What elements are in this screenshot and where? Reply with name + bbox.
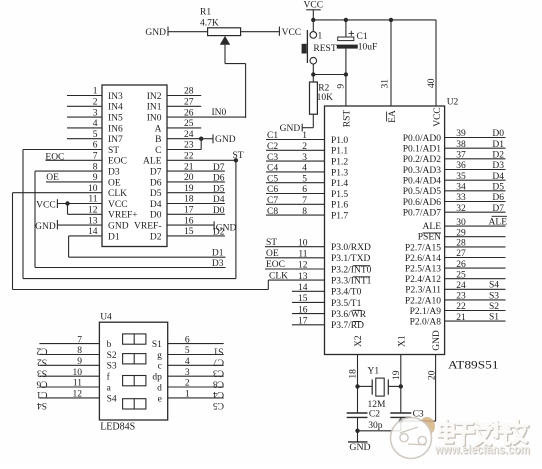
display segment box 3 <box>123 376 146 386</box>
wire X2 to crystal <box>357 355 359 387</box>
svg-text:C2: C2 <box>267 142 278 152</box>
MCU pin name P3.6/WR <box>331 310 367 320</box>
svg-text:D7: D7 <box>492 204 504 214</box>
svg-text:7: 7 <box>302 196 307 206</box>
svg-text:15: 15 <box>298 294 308 304</box>
wire MCU pin 8 net C8 <box>266 207 325 217</box>
svg-text:P3.4/T0: P3.4/T0 <box>331 288 362 298</box>
svg-text:20: 20 <box>184 173 194 183</box>
svg-text:X1: X1 <box>397 335 407 347</box>
power VCC (right of R1) <box>279 27 301 38</box>
wire ADC pin 3 <box>67 108 102 118</box>
wire MCU pin 11 <box>265 249 325 260</box>
svg-text:IN2: IN2 <box>147 92 162 102</box>
ground GND (crystal) <box>348 431 371 453</box>
wire ADC pin 11 <box>57 195 102 205</box>
svg-text:GND: GND <box>349 442 370 453</box>
svg-text:C1: C1 <box>267 131 278 141</box>
wire ADC pin 4 <box>67 119 102 129</box>
svg-text:C4: C4 <box>267 164 278 174</box>
svg-text:ALE: ALE <box>143 157 162 167</box>
wire MCU pin 36 net D3 <box>445 161 506 171</box>
wire ADC pin 5 <box>67 130 102 140</box>
svg-text:S1: S1 <box>489 313 499 323</box>
resistor R2 10K <box>310 75 334 115</box>
svg-text:C8: C8 <box>267 207 278 217</box>
svg-text:VCC: VCC <box>304 1 324 11</box>
svg-text:VCC: VCC <box>282 28 302 38</box>
wire ADC pin 12 <box>68 206 103 216</box>
wire ADC pin 2 <box>67 98 102 108</box>
svg-text:www.elecfans.com: www.elecfans.com <box>434 442 530 457</box>
svg-text:D2: D2 <box>213 228 225 238</box>
wire MCU pin 21 <box>445 313 506 323</box>
capacitor C1 10uF (electrolytic) <box>337 20 378 75</box>
svg-text:6: 6 <box>302 185 307 195</box>
svg-text:D3: D3 <box>212 259 224 269</box>
svg-text:12: 12 <box>73 390 83 400</box>
svg-text:C6: C6 <box>267 185 278 195</box>
svg-text:8: 8 <box>302 207 307 217</box>
svg-text:IN5: IN5 <box>108 114 123 124</box>
svg-text:D2: D2 <box>150 232 162 242</box>
wire C3 to C2 gnd <box>358 430 401 432</box>
svg-text:32: 32 <box>456 204 466 214</box>
wire GND pin 20 <box>401 355 436 422</box>
svg-text:IN1: IN1 <box>147 103 162 113</box>
svg-text:35: 35 <box>456 172 466 182</box>
svg-text:16: 16 <box>184 216 194 226</box>
MCU pin name P3.7/RD <box>331 321 364 331</box>
svg-text:12M: 12M <box>368 400 387 410</box>
svg-text:c: c <box>158 362 162 372</box>
ground GND (below R2) <box>280 124 303 135</box>
svg-text:P0.6/AD6: P0.6/AD6 <box>403 198 442 208</box>
node junction B/C GND <box>199 137 203 141</box>
svg-text:P3.0/RXD: P3.0/RXD <box>331 243 371 253</box>
svg-text:10uF: 10uF <box>358 43 378 53</box>
svg-text:2: 2 <box>302 142 307 152</box>
svg-text:17: 17 <box>298 317 308 327</box>
svg-text:C5: C5 <box>213 400 224 410</box>
wire D3 loop <box>35 171 226 267</box>
svg-text:9: 9 <box>77 357 82 367</box>
svg-text:25: 25 <box>184 119 194 129</box>
wire U4 pin 11 <box>36 379 99 399</box>
svg-text:24: 24 <box>184 130 194 140</box>
svg-text:28: 28 <box>456 239 466 249</box>
wire ADC pin 1 <box>67 87 102 97</box>
svg-text:7: 7 <box>77 335 82 345</box>
svg-text:1: 1 <box>318 31 323 41</box>
wire U4 pin 8 <box>37 346 100 366</box>
svg-text:D4: D4 <box>492 172 504 182</box>
svg-text:4: 4 <box>185 357 190 367</box>
svg-text:P3.6/WR: P3.6/WR <box>331 310 367 320</box>
svg-text:P2.1/A9: P2.1/A9 <box>410 307 442 317</box>
wire CLK loop <box>13 193 269 290</box>
wire ADC pin 17 <box>167 206 225 216</box>
svg-text:C7: C7 <box>267 196 278 206</box>
wire to GND bar <box>201 138 213 140</box>
svg-text:10: 10 <box>88 184 98 194</box>
svg-text:S4: S4 <box>489 281 499 291</box>
wire D1 loop <box>69 236 226 257</box>
wire U4 pin 12 <box>37 390 100 410</box>
svg-text:IN7: IN7 <box>108 135 123 145</box>
svg-text:S4: S4 <box>107 394 117 404</box>
svg-text:U4: U4 <box>100 312 112 322</box>
svg-text:P2.5/A13: P2.5/A13 <box>405 265 441 275</box>
svg-text:30: 30 <box>456 218 466 228</box>
svg-text:4: 4 <box>93 119 98 129</box>
wire MCU pin 32 net D7 <box>445 204 506 214</box>
svg-text:D6: D6 <box>492 193 504 203</box>
svg-text:D7: D7 <box>150 168 162 178</box>
wire MCU pin 30 net ALE <box>445 216 508 228</box>
svg-text:27: 27 <box>184 98 194 108</box>
wire MCU pin 29 <box>445 228 506 238</box>
wire U4 pin 1 <box>168 390 224 410</box>
svg-text:GND: GND <box>108 222 129 232</box>
svg-text:P1.6: P1.6 <box>331 201 348 211</box>
svg-text:ST: ST <box>108 146 119 156</box>
display segment box 1 <box>123 334 146 344</box>
MCU pin name P3.3/INT1 <box>331 277 372 287</box>
svg-text:P2.7/A15: P2.7/A15 <box>405 243 441 253</box>
display segment box 2 <box>123 354 146 364</box>
MCU pin name PSEN (overline) <box>418 233 441 243</box>
wire MCU pin 23 <box>445 291 506 301</box>
svg-text:P2.6/A14: P2.6/A14 <box>405 254 441 264</box>
svg-text:e: e <box>158 394 162 404</box>
node junction ALE/ST <box>234 158 238 162</box>
wire MCU pin 37 net D2 <box>445 151 506 161</box>
wire ADC pin 22 <box>167 152 236 162</box>
svg-text:D4: D4 <box>150 200 162 210</box>
wire U4 pin 5 <box>168 346 224 366</box>
wire ADC pin 7 <box>46 152 103 162</box>
wire ADC pin 14 <box>69 227 102 237</box>
svg-text:D1: D1 <box>212 249 224 259</box>
ground GND (left of R1) <box>145 27 168 38</box>
wire ADC pin 26 <box>167 108 246 118</box>
wire R2 to GND <box>302 114 313 128</box>
svg-text:3: 3 <box>302 153 307 163</box>
power VCC (top) <box>304 1 324 20</box>
svg-text:26: 26 <box>184 108 194 118</box>
svg-text:P3.2/INT0: P3.2/INT0 <box>331 265 372 275</box>
svg-text:25: 25 <box>456 270 466 280</box>
node junction rail/EA <box>389 18 393 22</box>
wire ADC pin 13 <box>57 216 102 226</box>
svg-text:11: 11 <box>73 379 82 389</box>
wire ADC pin 27 <box>167 98 201 108</box>
svg-text:D7: D7 <box>213 163 225 173</box>
svg-text:12: 12 <box>298 261 308 271</box>
svg-text:3: 3 <box>185 368 190 378</box>
svg-text:37: 37 <box>456 151 466 161</box>
svg-text:5: 5 <box>93 130 98 140</box>
wire ADC pin 28 <box>167 87 201 97</box>
wire MCU pin 35 net D4 <box>445 172 506 182</box>
svg-text:21: 21 <box>456 313 466 323</box>
svg-text:R1: R1 <box>200 7 211 17</box>
svg-text:OE: OE <box>108 178 121 188</box>
svg-text:23: 23 <box>184 141 194 151</box>
R1 wiper arrow <box>220 36 230 64</box>
svg-text:34: 34 <box>456 183 466 193</box>
svg-text:P2.3/A11: P2.3/A11 <box>405 286 441 296</box>
pin EA (vertical, overline) <box>387 110 398 123</box>
svg-text:B: B <box>155 135 161 145</box>
svg-text:A: A <box>155 124 162 134</box>
resistor R1 (potentiometer body) <box>200 7 241 35</box>
svg-text:LED84S: LED84S <box>100 421 135 432</box>
svg-text:D3: D3 <box>492 161 504 171</box>
svg-text:30p: 30p <box>368 421 383 431</box>
wire MCU pin 6 net C6 <box>266 185 325 195</box>
svg-text:D1: D1 <box>492 140 504 150</box>
svg-text:28: 28 <box>184 87 194 97</box>
svg-text:P2.2/A10: P2.2/A10 <box>405 296 441 306</box>
svg-text:7: 7 <box>93 152 98 162</box>
svg-text:AT89S51: AT89S51 <box>448 358 499 372</box>
svg-text:5: 5 <box>185 346 190 356</box>
svg-text:U2: U2 <box>447 97 459 107</box>
wire bottom reset rail <box>313 74 346 76</box>
op-amp U2 MCU body <box>325 106 445 355</box>
svg-text:X2: X2 <box>354 335 364 347</box>
wire MCU pin 24 <box>445 281 506 291</box>
svg-text:ST: ST <box>266 238 277 248</box>
capacitor C2 30p <box>347 386 383 431</box>
wire MCU pin 5 net C5 <box>266 174 325 184</box>
wire MCU pin 26 <box>445 260 506 270</box>
node junction VCC/VREF+ <box>65 201 69 205</box>
svg-text:P0.0/AD0: P0.0/AD0 <box>403 134 442 144</box>
svg-text:VREF+: VREF+ <box>108 211 138 221</box>
wire rail to EA pin 31 <box>390 20 392 106</box>
power VCC (ADC) <box>36 199 57 210</box>
svg-text:22: 22 <box>184 152 194 162</box>
wire MCU pin 14 <box>292 283 325 293</box>
svg-text:11: 11 <box>298 250 307 260</box>
wire GND to R1 <box>168 31 208 33</box>
svg-text:16: 16 <box>298 305 308 315</box>
crystal Y1 12M <box>358 367 401 410</box>
svg-text:GND: GND <box>432 330 442 351</box>
svg-text:P2.0/A8: P2.0/A8 <box>410 318 442 328</box>
wire MCU pin 13 <box>268 271 324 282</box>
node junction X2/Y1 <box>355 384 359 388</box>
svg-text:2: 2 <box>185 379 190 389</box>
svg-text:C3: C3 <box>267 153 278 163</box>
svg-text:10: 10 <box>73 368 83 378</box>
node junction rail/S1 <box>311 18 315 22</box>
svg-text:24: 24 <box>456 281 466 291</box>
node junction C3/GND20 <box>399 419 403 423</box>
svg-text:12: 12 <box>88 206 98 216</box>
svg-text:VCC: VCC <box>108 200 128 210</box>
svg-text:31: 31 <box>381 79 391 89</box>
svg-text:39: 39 <box>456 129 466 139</box>
svg-text:ALE: ALE <box>423 222 442 232</box>
svg-text:IN0: IN0 <box>212 108 227 118</box>
svg-text:EOC: EOC <box>45 152 64 162</box>
svg-text:P0.7/AD7: P0.7/AD7 <box>403 209 442 219</box>
svg-text:P0.4/AD4: P0.4/AD4 <box>403 177 442 187</box>
wire X1 to crystal <box>400 355 402 387</box>
svg-text:IN6: IN6 <box>108 124 123 134</box>
svg-text:P0.3/AD3: P0.3/AD3 <box>403 166 442 176</box>
wire ST loop (ADC pin6 to ALE) <box>23 150 236 279</box>
svg-text:1: 1 <box>302 131 307 141</box>
svg-text:D5: D5 <box>150 189 162 199</box>
svg-text:D5: D5 <box>492 183 504 193</box>
svg-text:R2: R2 <box>318 83 329 93</box>
svg-text:P3.7/RD: P3.7/RD <box>331 321 364 331</box>
svg-text:VCC: VCC <box>36 200 56 210</box>
wire MCU pin 33 net D6 <box>445 193 506 203</box>
wire ADC pin 16 <box>167 216 214 226</box>
svg-text:S2: S2 <box>489 302 499 312</box>
wire MCU pin 39 net D0 <box>445 129 506 139</box>
svg-text:P1.3: P1.3 <box>331 168 348 178</box>
svg-text:P0.5/AD5: P0.5/AD5 <box>403 187 442 197</box>
svg-text:36: 36 <box>456 161 466 171</box>
svg-text:OE: OE <box>266 249 279 259</box>
svg-text:d: d <box>157 383 162 393</box>
svg-text:4: 4 <box>302 164 307 174</box>
svg-text:g: g <box>157 351 162 361</box>
svg-text:D5: D5 <box>213 184 225 194</box>
wire ADC pin 9 <box>46 173 102 183</box>
svg-text:3: 3 <box>93 108 98 118</box>
svg-text:P0.2/AD2: P0.2/AD2 <box>403 155 442 165</box>
display segment box 4 <box>123 399 146 409</box>
wire U4 pin 2 <box>168 379 224 399</box>
svg-text:P1.2: P1.2 <box>331 158 348 168</box>
svg-text:15: 15 <box>184 227 194 237</box>
svg-text:dp: dp <box>152 373 162 383</box>
svg-text:EOC: EOC <box>266 260 285 270</box>
wire ADC pin 19 <box>167 184 225 194</box>
watermark logo circle <box>391 417 436 459</box>
svg-text:Y1: Y1 <box>368 367 380 377</box>
svg-text:23: 23 <box>456 292 466 302</box>
MCU pin name P3.2/INT0 <box>331 265 372 275</box>
wire ADC pin 25 <box>167 119 201 129</box>
wire MCU pin 2 net C2 <box>266 142 325 152</box>
wire U4 pin 3 <box>168 368 224 388</box>
svg-text:CLK: CLK <box>269 271 288 281</box>
svg-text:9: 9 <box>93 173 98 183</box>
svg-text:GND: GND <box>35 222 56 232</box>
wire ADC pin 6 <box>23 141 102 151</box>
svg-text:S4: S4 <box>37 400 47 410</box>
svg-text:P3.3/INT1: P3.3/INT1 <box>331 277 372 287</box>
svg-text:D0: D0 <box>150 211 162 221</box>
svg-text:6: 6 <box>185 335 190 345</box>
svg-text:P1.0: P1.0 <box>331 136 348 146</box>
svg-text:27: 27 <box>456 249 466 259</box>
wire to RST pin 9 <box>345 75 347 107</box>
display U4 body <box>99 322 167 420</box>
svg-text:4.7K: 4.7K <box>200 18 219 28</box>
wire MCU pin 38 net D1 <box>445 140 506 150</box>
svg-text:b: b <box>107 340 112 350</box>
svg-text:9: 9 <box>337 84 347 89</box>
svg-text:38: 38 <box>456 140 466 150</box>
svg-text:14: 14 <box>88 227 98 237</box>
wire MCU pin 28 <box>445 239 506 249</box>
wire MCU pin 17 <box>292 317 325 327</box>
wire MCU pin 7 net C7 <box>266 196 325 206</box>
ground GND (VREF-) <box>214 221 236 233</box>
svg-text:RST: RST <box>343 110 353 128</box>
svg-text:22: 22 <box>456 302 466 312</box>
svg-text:C2: C2 <box>369 410 380 420</box>
svg-text:19: 19 <box>184 184 194 194</box>
svg-text:21: 21 <box>184 162 194 172</box>
svg-text:IN3: IN3 <box>108 92 123 102</box>
wire ADC pin 20 <box>167 173 225 183</box>
wire ADC pin 10 <box>13 184 103 194</box>
wire VCC to VREF+ <box>67 204 69 215</box>
svg-text:D1: D1 <box>108 232 120 242</box>
wire MCU pin 22 <box>445 302 506 312</box>
svg-text:10K: 10K <box>317 93 334 103</box>
svg-text:D4: D4 <box>213 195 225 205</box>
wire ADC pin 8 <box>35 162 102 172</box>
ground GND (ADC pin 13) <box>35 220 57 232</box>
svg-text:19: 19 <box>392 370 402 380</box>
svg-text:P3.5/T1: P3.5/T1 <box>331 299 362 309</box>
svg-text:D6: D6 <box>150 178 162 188</box>
svg-text:CLK: CLK <box>108 189 127 199</box>
svg-text:20: 20 <box>428 370 438 380</box>
svg-text:EOC: EOC <box>108 157 127 167</box>
svg-text:D6: D6 <box>213 174 225 184</box>
svg-text:VCC: VCC <box>433 107 443 127</box>
svg-text:GND: GND <box>145 28 166 38</box>
svg-text:OE: OE <box>46 173 59 183</box>
svg-text:33: 33 <box>456 193 466 203</box>
capacitor C3 <box>390 386 424 430</box>
wire U4 pin 6 <box>168 335 224 355</box>
svg-text:D2: D2 <box>492 151 504 161</box>
wire U4 pin 4 <box>168 357 224 377</box>
wire U4 pin 10 <box>36 368 99 388</box>
svg-text:VREF-: VREF- <box>134 222 161 232</box>
svg-text:GND: GND <box>215 135 236 145</box>
wire MCU pin 16 <box>292 305 325 315</box>
wire MCU pin 10 <box>265 238 325 249</box>
node junction X1/Y1 <box>399 384 403 388</box>
ground GND (pins B,C) <box>213 134 236 145</box>
svg-text:C1: C1 <box>357 32 368 42</box>
svg-text:P2.4/A12: P2.4/A12 <box>405 275 441 285</box>
svg-text:PSEN: PSEN <box>418 233 441 243</box>
svg-text:S3: S3 <box>107 362 117 372</box>
svg-text:2: 2 <box>93 98 98 108</box>
svg-text:11: 11 <box>88 195 97 205</box>
svg-text:40: 40 <box>427 78 437 88</box>
svg-text:18: 18 <box>348 369 358 379</box>
wire MCU pin 3 net C3 <box>266 153 325 163</box>
svg-text:P1.1: P1.1 <box>331 147 348 157</box>
